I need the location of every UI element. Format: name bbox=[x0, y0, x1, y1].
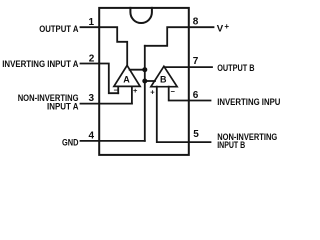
svg-text:INPUT A: INPUT A bbox=[47, 102, 79, 112]
pin 1 wire (OUTPUT A lead) bbox=[81, 26, 100, 28]
wire top junction tap to op-amp A bbox=[130, 69, 145, 71]
svg-text:INVERTING INPUT B: INVERTING INPUT B bbox=[217, 97, 280, 107]
pin 7 wire (OUTPUT B lead) bbox=[189, 66, 212, 68]
svg-text:OUTPUT A: OUTPUT A bbox=[39, 24, 79, 34]
wire pin3 to op-amp A non-inverting input bbox=[99, 103, 132, 105]
svg-text:5: 5 bbox=[193, 129, 199, 140]
svg-text:+: + bbox=[150, 88, 155, 97]
svg-text:+: + bbox=[224, 22, 229, 31]
svg-text:−: − bbox=[171, 87, 176, 96]
svg-text:6: 6 bbox=[193, 90, 199, 101]
junction dot lower (rail to B) bbox=[142, 79, 147, 84]
svg-text:INVERTING INPUT A: INVERTING INPUT A bbox=[2, 59, 79, 69]
wire pin2 to op-amp A inverting input bbox=[99, 64, 118, 94]
wire pin4 GND to center rail bbox=[99, 140, 145, 142]
pin 3 wire (NON-INVERTING INPUT A lead) bbox=[81, 103, 100, 105]
wire op-amp A inverting input lead bbox=[117, 86, 119, 93]
pin 6 wire (INVERTING INPUT B lead) bbox=[189, 100, 211, 102]
svg-text:7: 7 bbox=[193, 56, 199, 67]
svg-text:3: 3 bbox=[88, 93, 94, 104]
wire bottom junction tap to op-amp B bbox=[145, 80, 155, 82]
wire op-amp B output to pin 7 bbox=[164, 66, 189, 68]
wire center supply rail bbox=[144, 46, 146, 141]
svg-text:−: − bbox=[114, 85, 119, 94]
junction dot upper (V+ to A) bbox=[142, 67, 147, 72]
wire pin8 V+ staircase to center rail bbox=[145, 27, 189, 46]
svg-text:OUTPUT B: OUTPUT B bbox=[217, 63, 254, 73]
op-amp B triangle bbox=[151, 66, 177, 86]
svg-text:INPUT B: INPUT B bbox=[217, 140, 245, 150]
svg-text:4: 4 bbox=[88, 130, 94, 141]
svg-text:2: 2 bbox=[89, 53, 95, 64]
wire pin1 to op-amp A output (staircase) bbox=[99, 27, 127, 66]
op-amp A triangle bbox=[114, 65, 140, 86]
wire op-amp B inverting input to pin 6 bbox=[169, 87, 189, 101]
svg-text:V: V bbox=[217, 23, 224, 34]
svg-text:A: A bbox=[123, 74, 130, 84]
notch (index mark) at top center bbox=[130, 8, 152, 23]
pin 4 wire (GND lead) bbox=[81, 140, 100, 142]
svg-text:GND: GND bbox=[62, 137, 79, 147]
IC package outline DIP-8 bbox=[99, 8, 189, 155]
wire op-amp B non-inverting input to pin 5 bbox=[157, 87, 189, 142]
svg-text:1: 1 bbox=[88, 17, 94, 28]
pin 2 wire (INVERTING INPUT A lead) bbox=[81, 63, 100, 65]
svg-text:+: + bbox=[133, 86, 138, 95]
pin 5 wire (NON-INVERTING INPUT B lead) bbox=[189, 141, 211, 143]
pin 8 wire (V+ lead) bbox=[189, 26, 214, 28]
svg-text:8: 8 bbox=[193, 16, 199, 27]
wire op-amp A non-inverting input lead bbox=[131, 86, 133, 103]
svg-text:B: B bbox=[160, 75, 167, 85]
